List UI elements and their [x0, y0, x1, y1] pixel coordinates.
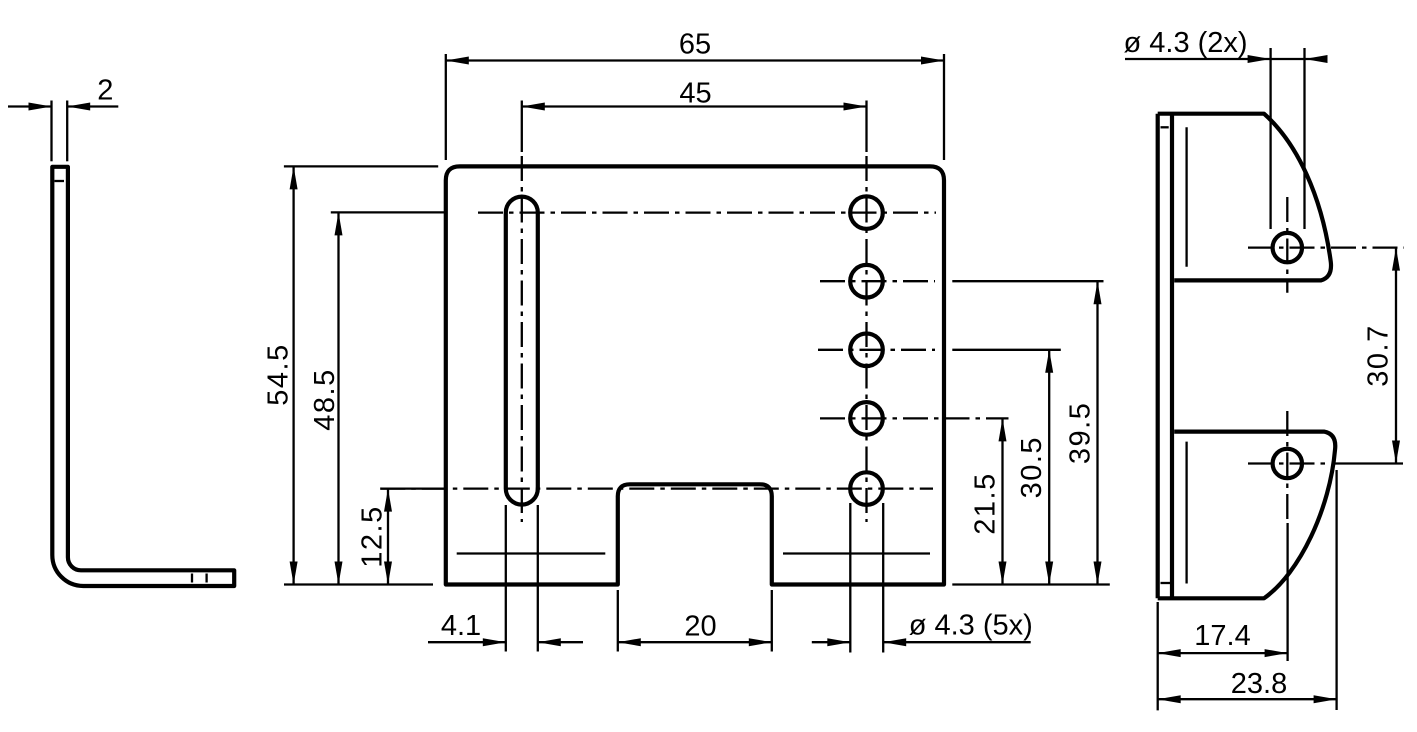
svg-text:21.5: 21.5 — [970, 472, 1002, 534]
svg-text:30.5: 30.5 — [1016, 436, 1048, 498]
svg-text:54.5: 54.5 — [263, 343, 295, 405]
svg-text:23.8: 23.8 — [1231, 668, 1287, 700]
svg-text:ø 4.3 (5x): ø 4.3 (5x) — [909, 610, 1033, 642]
svg-text:2: 2 — [97, 75, 113, 107]
svg-text:12.5: 12.5 — [357, 505, 389, 567]
svg-text:39.5: 39.5 — [1065, 402, 1097, 464]
svg-text:45: 45 — [679, 77, 711, 109]
svg-text:30.7: 30.7 — [1363, 324, 1395, 386]
svg-text:4.1: 4.1 — [441, 610, 481, 642]
svg-text:48.5: 48.5 — [309, 368, 341, 430]
svg-text:65: 65 — [679, 29, 711, 61]
svg-text:ø 4.3 (2x): ø 4.3 (2x) — [1124, 27, 1248, 59]
svg-text:17.4: 17.4 — [1194, 620, 1250, 652]
svg-text:20: 20 — [684, 610, 716, 642]
